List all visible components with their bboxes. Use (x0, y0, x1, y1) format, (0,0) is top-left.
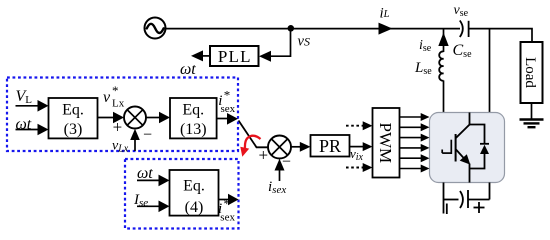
svg-text:Eq.: Eq. (183, 178, 205, 195)
svg-text:ωt: ωt (180, 61, 196, 78)
svg-text:isex: isex (268, 179, 286, 196)
svg-text:Eq.: Eq. (182, 102, 204, 119)
svg-text:PLL: PLL (218, 47, 252, 66)
svg-text:vix: vix (350, 146, 364, 163)
wire PWM outputs to converter (400, 113, 430, 173)
dashed control box 2 (125, 159, 239, 229)
svg-text:*: * (112, 83, 119, 98)
transistor Q1 (IGBT) (442, 113, 470, 183)
svg-text:vLx: vLx (112, 139, 129, 155)
dashed control box 1 (7, 78, 238, 152)
wire vLx feedback arrow (134, 139, 136, 152)
PR block (311, 135, 350, 157)
svg-text:iL: iL (380, 6, 390, 22)
svg-text:Eq.: Eq. (62, 102, 84, 119)
Eq4 block (170, 170, 219, 216)
switch blade (239, 121, 269, 148)
wire PLL output arrow (202, 55, 210, 57)
capacitor Cse (460, 21, 469, 38)
svg-text:(4): (4) (185, 199, 204, 216)
svg-text:Lx: Lx (112, 98, 125, 110)
wire dashed input bottom to PWM (346, 163, 373, 172)
Eq13 block (170, 98, 217, 138)
svg-text:vS: vS (298, 34, 310, 50)
wire wt input arrow Eq4 (137, 179, 160, 181)
PLL block (210, 46, 259, 66)
svg-text:ωt: ωt (137, 165, 153, 182)
wire S2 to PR (291, 146, 301, 148)
svg-text:Lse: Lse (414, 60, 432, 77)
wire isex input arrow (279, 169, 281, 181)
node vS junction dot (288, 25, 295, 32)
wire series branch right (489, 29, 491, 113)
svg-text:v: v (103, 89, 111, 106)
ac source VS (145, 18, 166, 39)
wire load to ground (531, 103, 533, 120)
switch red arrow (240, 136, 260, 157)
wire iL arrowhead (379, 23, 393, 35)
wire ise arrowhead (438, 33, 448, 47)
Load block (521, 42, 543, 103)
wire S1 to Eq13 (146, 117, 161, 119)
svg-text:sex: sex (220, 212, 235, 224)
wire Eq3 to S1 (98, 117, 116, 119)
svg-text:PR: PR (319, 136, 341, 156)
svg-text:Load: Load (522, 57, 538, 88)
ground (520, 120, 544, 128)
inductor Lse (439, 51, 443, 80)
wire Eq13 output arrow (217, 118, 229, 120)
wire series branch left (through Lse) (443, 29, 445, 52)
wire vS tap down to PLL (270, 29, 291, 57)
svg-text:vse: vse (454, 3, 469, 19)
svg-text:*: * (224, 88, 231, 103)
converter block (430, 113, 505, 183)
svg-text:+: + (259, 145, 269, 164)
svg-text:(3): (3) (64, 121, 83, 138)
wire capacitor to load (469, 29, 532, 42)
wire VL input arrow (16, 105, 40, 107)
summing junction S1 (124, 107, 146, 129)
wire PR to PWM (350, 146, 365, 148)
svg-text:+: + (113, 118, 123, 137)
svg-text:ise: ise (419, 38, 432, 54)
svg-text:ωt: ωt (16, 116, 32, 133)
svg-text:PWM: PWM (376, 122, 395, 163)
svg-text:sex: sex (221, 103, 236, 115)
svg-text:VL: VL (16, 88, 33, 106)
wire dashed input top to PWM (346, 121, 373, 130)
svg-text:Cse: Cse (453, 42, 473, 60)
diode D1 (470, 125, 490, 169)
wire Ise input arrow (137, 205, 160, 207)
PWM block (373, 108, 400, 178)
svg-text:(13): (13) (180, 121, 207, 138)
wire wt input arrow (16, 129, 40, 131)
wire source to capacitor (166, 28, 461, 30)
Eq3 block (49, 98, 98, 138)
capacitor DC link (444, 183, 490, 215)
svg-text:−: − (143, 127, 152, 144)
wire Eq4 output arrow (219, 199, 231, 201)
svg-text:*: * (224, 196, 231, 211)
summing junction S2 (268, 136, 291, 159)
